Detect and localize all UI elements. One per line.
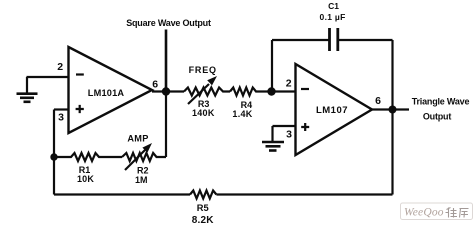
- svg-text:Triangle Wave: Triangle Wave: [412, 97, 470, 107]
- wire C1 left vertical: [271, 40, 273, 92]
- svg-text:10K: 10K: [77, 174, 94, 184]
- potentiometer R2 wiper arrow: [125, 150, 145, 170]
- resistor R5 zigzag: [190, 191, 216, 199]
- wire left vertical from pin3 down to bottom rail: [53, 110, 55, 195]
- watermark glyph wei: [446, 208, 469, 218]
- svg-text:1M: 1M: [135, 175, 148, 185]
- wire feedback vertical from R2 up to U1 output node: [165, 92, 167, 158]
- watermark box: [401, 203, 473, 220]
- potentiometer R2 zigzag: [122, 153, 166, 161]
- svg-text:R5: R5: [197, 203, 209, 213]
- svg-text:3: 3: [286, 128, 292, 140]
- svg-text:FREQ: FREQ: [189, 65, 217, 75]
- svg-text:2: 2: [57, 61, 63, 73]
- wire C1 top right: [338, 39, 393, 41]
- svg-text:0.1 µF: 0.1 µF: [320, 12, 346, 22]
- op-amp U2 inverting input minus sign: [301, 88, 309, 90]
- svg-text:WeeQoo: WeeQoo: [404, 207, 444, 219]
- op-amp U1 LM101A triangle body: [69, 47, 153, 133]
- wire bottom rail right: [216, 193, 392, 195]
- svg-text:LM107: LM107: [316, 105, 348, 116]
- svg-text:8.2K: 8.2K: [192, 215, 215, 225]
- potentiometer R3 wiper arrow: [188, 84, 209, 104]
- wire ground drop for U2 pin3: [271, 126, 273, 141]
- svg-text:Square Wave Output: Square Wave Output: [126, 18, 211, 28]
- node C junction R4/C1/U2 pin2: [267, 87, 275, 95]
- op-amp U1 non-inverting input plus sign: [76, 105, 84, 113]
- capacitor C1 plates: [330, 28, 338, 51]
- wire U1 output to R3: [152, 90, 184, 92]
- wire U2 output to node: [372, 108, 409, 110]
- node D junction U2 output: [389, 106, 397, 114]
- resistor R4 zigzag: [230, 88, 296, 96]
- svg-text:LM101A: LM101A: [88, 88, 125, 98]
- wire C1 top left: [272, 39, 329, 41]
- wire ground drop for U1 pin2: [26, 77, 28, 93]
- wire U2 pin3 input: [273, 125, 296, 127]
- wire square wave output vertical: [165, 30, 168, 92]
- op-amp U1 inverting input minus sign: [76, 73, 84, 75]
- potentiometer R3 zigzag: [184, 88, 230, 96]
- wire right vertical from C1 through output node to bottom rail: [391, 40, 393, 195]
- ground symbol G1: [17, 94, 38, 102]
- svg-text:140K: 140K: [192, 108, 215, 118]
- svg-text:6: 6: [152, 78, 158, 90]
- svg-text:1.4K: 1.4K: [232, 109, 252, 119]
- ground symbol G2: [262, 142, 284, 151]
- resistor R1 zigzag: [54, 153, 122, 161]
- node B junction U1 output: [162, 87, 170, 95]
- wire bottom rail left: [54, 193, 190, 195]
- wire U1 pin2 input: [27, 76, 69, 78]
- svg-text:AMP: AMP: [127, 134, 148, 144]
- svg-text:6: 6: [375, 95, 381, 107]
- svg-text:Output: Output: [423, 112, 451, 122]
- svg-text:2: 2: [286, 78, 292, 90]
- op-amp U2 LM107 triangle body: [296, 64, 373, 155]
- wire U1 pin3 input: [54, 108, 69, 110]
- node A junction R1/pin3/R5: [50, 153, 57, 160]
- watermark glyph ku: [460, 209, 469, 218]
- svg-text:C1: C1: [328, 1, 339, 11]
- op-amp U2 non-inverting input plus sign: [301, 123, 309, 131]
- svg-text:3: 3: [58, 112, 64, 124]
